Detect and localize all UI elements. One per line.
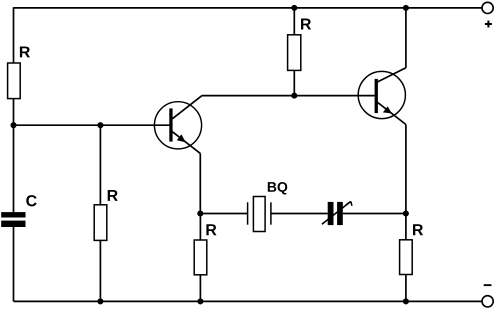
junction dot R5 bottom rail bbox=[403, 298, 409, 304]
crystal BQ right plate bbox=[270, 202, 272, 224]
wire top supply rail bbox=[14, 7, 482, 9]
resistor R2 bbox=[94, 205, 107, 241]
resistor R4 label bbox=[206, 224, 216, 235]
junction node A dot left bbox=[10, 122, 16, 128]
junction dot collector row at R3 bbox=[291, 93, 297, 99]
transistor Q1 collector lead bbox=[172, 96, 202, 119]
transistor Q2 emitter lead bbox=[378, 102, 406, 124]
transistor Q2 base bar bbox=[375, 79, 378, 113]
transistor Q2 emitter arrowhead bbox=[383, 106, 392, 113]
capacitor C plate top bbox=[1, 212, 25, 217]
wire R3 branch upper bbox=[293, 8, 295, 35]
transistor Q1 base bar bbox=[169, 108, 172, 141]
wire left vertical upper (through R1 down to capacitor C) bbox=[13, 7, 15, 212]
wire left vertical lower (capacitor C to bottom rail) bbox=[13, 227, 15, 302]
resistor R1 label bbox=[20, 46, 30, 57]
transistor Q1 body circle bbox=[154, 102, 201, 149]
wire Q2 collector vertical bbox=[405, 8, 407, 68]
wire collector row Q1 to Q2 base bbox=[202, 95, 375, 97]
junction dot R2 bottom rail bbox=[97, 298, 103, 304]
variable capacitor arrow shaft bbox=[322, 202, 350, 225]
crystal BQ label bbox=[268, 182, 277, 192]
wire crystal row left segment bbox=[200, 213, 247, 215]
resistor R3 label bbox=[301, 19, 311, 30]
wire Q2 emitter vertical bbox=[405, 125, 407, 214]
junction dot top rail at Q2 collector bbox=[403, 5, 409, 11]
wire base row node A bbox=[14, 124, 171, 126]
terminal + circle bbox=[482, 2, 493, 13]
variable capacitor arrowhead left barb bbox=[346, 202, 351, 205]
transistor Q1 emitter lead bbox=[172, 132, 200, 154]
resistor R3 bbox=[288, 35, 301, 71]
junction dot top rail at R3 bbox=[291, 5, 297, 11]
resistor R4 bbox=[194, 240, 207, 275]
resistor R1 bbox=[8, 63, 21, 99]
terminal - minus sign bbox=[484, 284, 492, 286]
wire R5 branch upper bbox=[405, 214, 407, 240]
crystal BQ body bbox=[253, 197, 265, 232]
resistor R5 label bbox=[413, 224, 423, 235]
wire R3 branch lower bbox=[293, 70, 295, 95]
wire R4 branch lower bbox=[199, 275, 201, 302]
terminal - circle bbox=[482, 296, 493, 307]
variable capacitor arrowhead right barb bbox=[351, 202, 352, 206]
crystal BQ left plate bbox=[247, 202, 249, 224]
junction dot R4 bottom rail bbox=[197, 298, 203, 304]
resistor R5 bbox=[400, 240, 413, 275]
terminal + plus sign vertical bbox=[487, 21, 489, 28]
capacitor C plate bottom bbox=[1, 221, 25, 227]
junction node A dot at R2 bbox=[97, 122, 103, 128]
resistor R2 label bbox=[108, 190, 118, 201]
wire crystal row middle segment bbox=[271, 213, 328, 215]
wire bottom rail bbox=[14, 300, 482, 302]
wire R2 branch vertical bbox=[99, 125, 101, 301]
variable capacitor left plate bbox=[328, 202, 334, 225]
transistor Q2 body circle bbox=[358, 71, 405, 118]
terminal + plus sign horizontal bbox=[485, 23, 492, 25]
capacitor C label bbox=[26, 195, 36, 206]
wire R4 branch upper bbox=[199, 214, 201, 241]
variable capacitor right plate bbox=[337, 202, 343, 225]
transistor Q1 emitter arrowhead bbox=[177, 134, 186, 142]
wire Q1 emitter vertical bbox=[199, 153, 201, 213]
wire crystal row right segment bbox=[343, 213, 406, 215]
wire R5 branch lower bbox=[405, 275, 407, 302]
junction dot crystal node left bbox=[197, 210, 203, 216]
junction dot crystal node right bbox=[403, 210, 409, 216]
transistor Q2 collector lead bbox=[378, 68, 406, 82]
